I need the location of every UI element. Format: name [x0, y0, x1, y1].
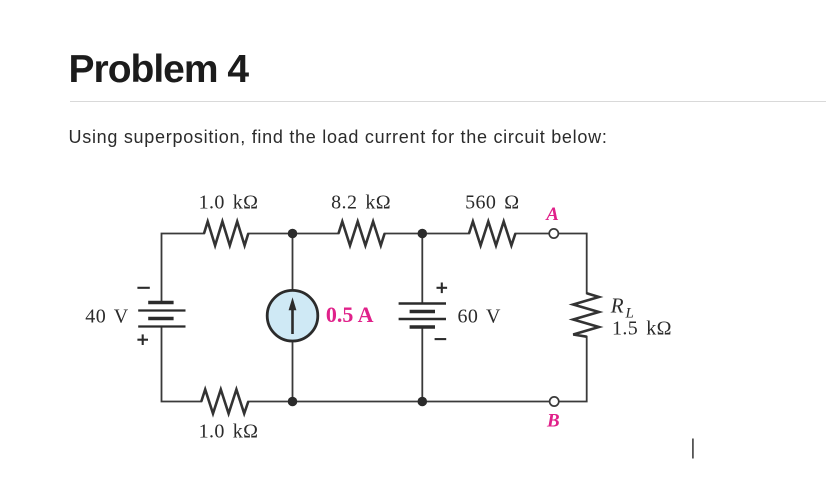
terminal B: [550, 397, 559, 406]
svg-text:L: L: [625, 306, 634, 322]
svg-text:1.0 kΩ: 1.0 kΩ: [199, 192, 259, 214]
svg-text:1.5 kΩ: 1.5 kΩ: [612, 318, 672, 340]
wire top mid1: [248, 233, 338, 235]
wire current source branch top: [292, 234, 294, 290]
wire top-left: [162, 234, 205, 303]
battery 60V plates: [399, 304, 446, 328]
resistor 560: [469, 222, 515, 246]
wire top mid2: [385, 233, 469, 235]
terminal A: [549, 229, 558, 238]
resistor RL: [573, 293, 599, 336]
svg-text:B: B: [546, 411, 560, 432]
svg-text:560 Ω: 560 Ω: [465, 192, 519, 214]
svg-text:1.0 kΩ: 1.0 kΩ: [199, 421, 259, 443]
wire B to left: [422, 401, 549, 403]
wire RL bottom: [559, 337, 587, 402]
wire top to A: [515, 233, 548, 235]
resistor R1 1.0k top: [204, 222, 248, 246]
node top-2: [418, 229, 428, 239]
resistor 8.2k: [339, 222, 385, 246]
wire A to right corner: [559, 234, 587, 294]
wire current source branch bottom: [292, 342, 294, 401]
battery 40V minus sign: [137, 287, 149, 289]
battery 60V plus sign: [437, 287, 448, 289]
text cursor: [692, 439, 694, 459]
resistor 1.0k bottom: [201, 390, 248, 414]
wire bottom mid: [292, 401, 422, 403]
battery 40V plates: [138, 303, 185, 327]
wire bottom resistor to node: [248, 401, 292, 403]
battery 40V plus sign: [137, 339, 148, 341]
svg-text:60 V: 60 V: [458, 305, 501, 327]
svg-text:8.2 kΩ: 8.2 kΩ: [331, 192, 391, 214]
wire 60V branch top: [421, 234, 423, 303]
svg-text:A: A: [545, 204, 559, 225]
svg-text:R: R: [610, 294, 624, 318]
node bottom-2: [418, 397, 428, 407]
wire 60V branch bottom: [421, 328, 423, 402]
node top-1: [288, 229, 298, 239]
svg-text:0.5 A: 0.5 A: [326, 302, 374, 327]
wire bottom-left corner: [162, 327, 202, 402]
battery 60V minus sign: [435, 338, 447, 340]
svg-text:40 V: 40 V: [85, 305, 128, 327]
current source I1: [267, 290, 318, 341]
node bottom-1: [288, 397, 298, 407]
